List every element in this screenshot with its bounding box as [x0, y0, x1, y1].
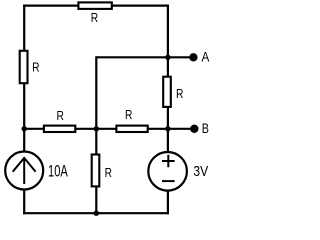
wire: top rail: [23, 4, 169, 6]
svg-text:R: R: [176, 87, 183, 101]
voltage source V1 plus sign: [162, 155, 175, 168]
junction: middle rail / middle row: [94, 126, 99, 131]
svg-text:R: R: [105, 166, 112, 180]
wire: bottom rail: [23, 212, 169, 214]
svg-text:B: B: [202, 120, 209, 136]
svg-text:3V: 3V: [193, 163, 208, 180]
resistor R (middle row right): [116, 126, 147, 132]
resistor R (right rail upper): [163, 77, 171, 107]
wire: right rail: [167, 5, 169, 215]
svg-text:R: R: [125, 108, 132, 122]
resistor R (middle rail lower): [92, 155, 100, 187]
junction: left rail / middle row: [22, 126, 27, 131]
wire: middle rail: [95, 56, 97, 213]
svg-text:R: R: [32, 61, 39, 75]
voltage source V1 minus sign: [162, 180, 175, 182]
resistor R (middle row left): [44, 126, 75, 132]
current source I1 arrow: [13, 158, 36, 184]
svg-text:R: R: [91, 11, 98, 25]
voltage source V1 body: [148, 152, 187, 191]
node A terminal dot: [189, 53, 197, 61]
wire: node A row: [96, 56, 193, 58]
junction: middle rail / bottom rail: [94, 211, 99, 216]
resistor R (top): [78, 2, 111, 8]
resistor R (left rail): [20, 51, 28, 83]
wire: middle row (node B row): [24, 128, 194, 130]
wire: left rail: [23, 5, 25, 215]
svg-text:R: R: [57, 109, 64, 123]
node B terminal dot: [190, 125, 198, 133]
svg-text:10A: 10A: [48, 163, 68, 181]
junction: right rail / middle row: [165, 126, 170, 131]
current source I1 body: [5, 152, 43, 190]
svg-text:A: A: [202, 49, 210, 65]
junction: right rail / node A row: [165, 55, 170, 60]
